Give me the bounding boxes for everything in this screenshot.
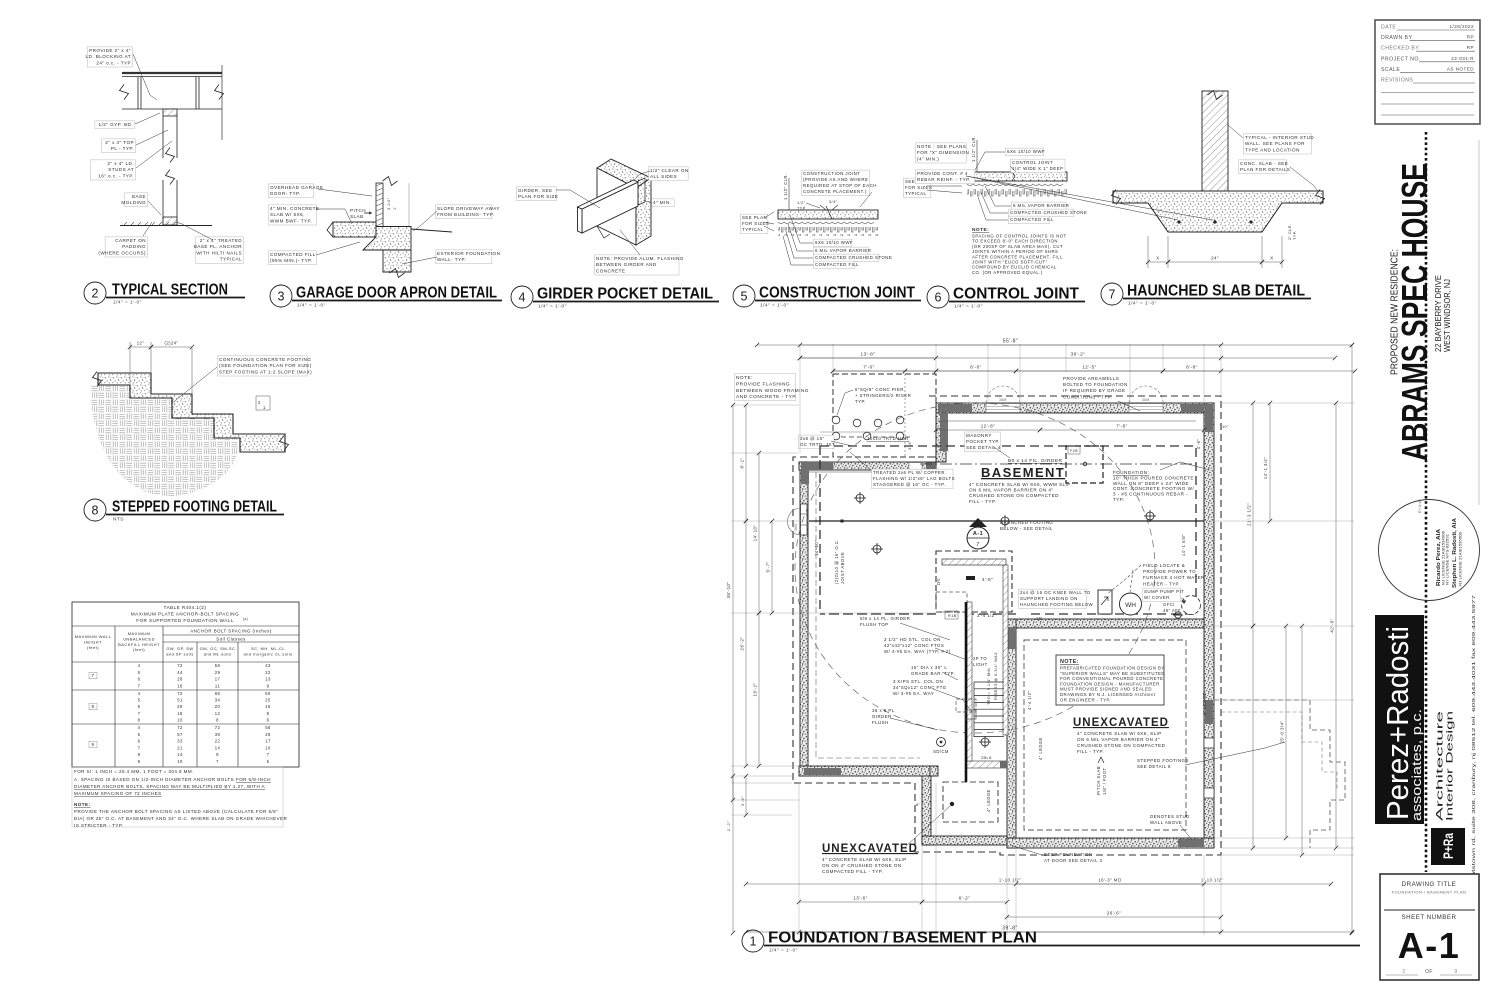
svg-text:1'-10 1/2": 1'-10 1/2": [1201, 878, 1223, 883]
svg-text:UNBALANCED: UNBALANCED: [123, 636, 155, 641]
svg-text:STAGGERED @ 16" OC - TYP.: STAGGERED @ 16" OC - TYP.: [873, 482, 946, 487]
svg-text:WWM BWF- TYP.: WWM BWF- TYP.: [270, 218, 312, 223]
svg-text:13: 13: [265, 677, 271, 682]
svg-text:(feet): (feet): [133, 647, 145, 652]
svg-text:4: 4: [138, 691, 141, 696]
svg-text:36'-2": 36'-2": [1071, 352, 1086, 358]
svg-text:Soil Classes: Soil Classes: [216, 637, 246, 642]
svg-text:BACKFILL HEIGHT: BACKFILL HEIGHT: [118, 642, 160, 647]
svg-text:CONDITIONS - TYP.: CONDITIONS - TYP.: [1063, 394, 1112, 399]
plan: knee wall label: [1019, 589, 1087, 609]
svg-text:MAXIMUM: MAXIMUM: [128, 631, 150, 636]
svg-text:10": 10": [1222, 425, 1229, 429]
svg-text:2P TO: 2P TO: [973, 656, 987, 661]
svg-text:36M: 36M: [999, 398, 1007, 402]
svg-text:6'-6": 6'-6": [970, 365, 981, 370]
svg-text:FIELD LOCATE &: FIELD LOCATE &: [1143, 563, 1185, 568]
d8 label: [218, 356, 308, 376]
svg-text:SHEET NUMBER: SHEET NUMBER: [1401, 914, 1456, 921]
plan title 1: [742, 930, 764, 952]
svg-text:1 1/2" CLR.: 1 1/2" CLR.: [783, 174, 788, 200]
svg-text:36M: 36M: [794, 523, 798, 531]
svg-text:BETWEEN WOOD FRAMING: BETWEEN WOOD FRAMING: [736, 388, 809, 394]
svg-text:7: 7: [216, 759, 219, 764]
svg-text:GIRDER: GIRDER: [872, 714, 892, 719]
svg-text:4" CONCRETE SLAB W/ 6X6, WWM S: 4" CONCRETE SLAB W/ 6X6, WWM SLIP: [969, 482, 1071, 487]
svg-text:"SUPERIOR WALLS" MAY BE SUBSTI: "SUPERIOR WALLS" MAY BE SUBSTITUTED: [1060, 671, 1165, 676]
plan: stoop walls bottom-center: [922, 776, 931, 845]
svg-text:7: 7: [138, 683, 141, 688]
svg-text:CARPET ON: CARPET ON: [115, 238, 146, 243]
svg-text:OF: OF: [1425, 969, 1433, 975]
svg-text:5: 5: [138, 670, 141, 675]
svg-text:5: 5: [138, 698, 141, 703]
plan: masonry pocket label: [965, 432, 1001, 452]
svg-text:10" THICK POURED CONCRETE: 10" THICK POURED CONCRETE: [1113, 475, 1194, 480]
svg-text:7: 7: [1109, 288, 1116, 302]
plan: stoop inner dashed rect: [943, 782, 998, 822]
plan: dark stud-wall marks: [938, 404, 972, 412]
svg-text:1/26/2022: 1/26/2022: [1450, 24, 1475, 29]
svg-text:JOIST ABOVE: JOIST ABOVE: [840, 552, 845, 584]
svg-text:GARAGE DOOR APRON DETAIL: GARAGE DOOR APRON DETAIL: [296, 285, 497, 302]
svg-text:POCKET TYP.: POCKET TYP.: [966, 439, 1000, 444]
anchor bolt table: [72, 602, 299, 767]
svg-text:1: 1: [750, 935, 757, 949]
d6 labels: [1006, 148, 1044, 156]
svg-text:HEIGHT: HEIGHT: [84, 639, 102, 644]
svg-text:72: 72: [177, 725, 183, 730]
svg-text:17: 17: [265, 739, 271, 744]
svg-text:12'-8": 12'-8": [981, 424, 995, 429]
svg-text:14'-10": 14'-10": [814, 540, 819, 556]
svg-text:1/4" = 1'-0": 1/4" = 1'-0": [538, 304, 567, 310]
svg-text:F2B: F2B: [1070, 449, 1078, 453]
svg-text:MAXIMUM PLATE ANCHOR-BOLT SPAC: MAXIMUM PLATE ANCHOR-BOLT SPACING: [131, 612, 239, 617]
svg-text:FLUSH TOP: FLUSH TOP: [860, 622, 889, 627]
plan: haunched footing bold dashed boundary: [820, 446, 1196, 614]
svg-text:14: 14: [177, 752, 183, 757]
svg-text:P+Ra: P+Ra: [1441, 833, 1456, 859]
titleblock: Perez+Radosti black box: [1375, 615, 1424, 824]
svg-text:HAUNCHED FOOTING BELOW: HAUNCHED FOOTING BELOW: [1020, 602, 1093, 607]
plan: bay window west: [788, 508, 802, 535]
svg-text:LIGHT: LIGHT: [973, 662, 988, 667]
svg-text:6: 6: [138, 677, 141, 682]
svg-text:TYP.: TYP.: [1113, 497, 1124, 502]
svg-text:14: 14: [215, 745, 221, 750]
svg-text:8: 8: [216, 717, 219, 722]
svg-text:TABLE R404.1(2): TABLE R404.1(2): [164, 605, 207, 610]
plan: east wall: [1204, 403, 1214, 848]
svg-text:FOUNDATION DESIGN - MANUFACTUR: FOUNDATION DESIGN - MANUFACTURER: [1060, 681, 1160, 686]
svg-text:NTS: NTS: [113, 517, 124, 523]
svg-text:2: 2: [1402, 969, 1405, 975]
plan: east wall window gaps: [1204, 738, 1214, 748]
svg-text:8: 8: [138, 717, 141, 722]
svg-text:WALL ABOVE: WALL ABOVE: [1150, 820, 1182, 825]
svg-text:COMPACTED CRUSHED STONE: COMPACTED CRUSHED STONE: [815, 255, 892, 260]
plan: section marker A-1: [967, 518, 989, 549]
svg-text:RP: RP: [1467, 45, 1474, 50]
svg-text:34: 34: [215, 698, 221, 703]
svg-text:W/ 4-#5 EA. WAY (TYP, # 2): W/ 4-#5 EA. WAY (TYP, # 2): [884, 649, 951, 654]
svg-text:HAUNCHED FOOTING: HAUNCHED FOOTING: [1000, 520, 1053, 525]
svg-text:29: 29: [215, 670, 221, 675]
svg-text:WALL. SEE PLANS FOR: WALL. SEE PLANS FOR: [1245, 141, 1305, 146]
svg-text:1 1/2" CLR.: 1 1/2" CLR.: [971, 136, 976, 162]
svg-text:PITCH SLAB: PITCH SLAB: [1096, 766, 1101, 795]
svg-text:PROVIDE THE ANCHOR BOLT SPACIN: PROVIDE THE ANCHOR BOLT SPACING AS LISTE…: [74, 809, 278, 814]
svg-text:3 1/2" HD STL. COL ON: 3 1/2" HD STL. COL ON: [884, 637, 941, 642]
svg-text:16" o.c. - TYP.: 16" o.c. - TYP.: [98, 173, 134, 178]
svg-text:PL - TYP.: PL - TYP.: [111, 146, 134, 151]
svg-text:2: 2: [92, 287, 99, 301]
svg-text:PROVIDE FLASHING: PROVIDE FLASHING: [736, 381, 790, 387]
svg-text:STEPPED FOOTINGS: STEPPED FOOTINGS: [1137, 758, 1189, 763]
svg-text:3: 3: [278, 290, 285, 304]
detail 7: haunched slab drawing: [1202, 91, 1228, 191]
svg-text:24" o.c. - TYP: 24" o.c. - TYP: [96, 60, 131, 65]
svg-text:STEPPED FOOTING DETAIL: STEPPED FOOTING DETAIL: [112, 499, 277, 516]
svg-text:CONTROL JOINT: CONTROL JOINT: [953, 286, 1080, 303]
svg-text:BETWEEN GIRDER AND: BETWEEN GIRDER AND: [596, 262, 657, 267]
svg-text:FOR SI: 1 INCH = 25.4 MM, 1 FO: FOR SI: 1 INCH = 25.4 MM, 1 FOOT = 304.8…: [74, 769, 194, 774]
plan: SE room bottom wall: [1007, 838, 1214, 848]
svg-text:72: 72: [177, 691, 183, 696]
svg-text:7: 7: [138, 711, 141, 716]
svg-text:21'-3 1/2": 21'-3 1/2": [1247, 503, 1252, 526]
svg-text:DN: DN: [936, 578, 941, 585]
svg-text:X: X: [1270, 256, 1273, 261]
svg-text:6'-8": 6'-8": [1186, 365, 1197, 370]
svg-text:5: 5: [267, 759, 270, 764]
plan dims: right extension lines: [1221, 402, 1354, 404]
detail 4: girder pocket isometric: [597, 159, 651, 188]
detail 5 title: [733, 285, 755, 307]
svg-text:+ STRINGERS/2 RISER: + STRINGERS/2 RISER: [855, 393, 911, 398]
svg-text:13'-6": 13'-6": [853, 896, 867, 901]
detail 8 title: [84, 499, 106, 521]
svg-text:6"SQ/8" CONC PIER: 6"SQ/8" CONC PIER: [855, 387, 904, 392]
svg-text:CONC. SLAB - SEE: CONC. SLAB - SEE: [1240, 161, 1288, 166]
plan: inner footing lines: [936, 420, 1196, 422]
svg-text:SEE DETAIL 4: SEE DETAIL 4: [966, 445, 1001, 450]
plan: note box top-left: [735, 374, 796, 401]
svg-text:1/4" = 1'-0": 1/4" = 1'-0": [954, 304, 983, 310]
svg-text:57: 57: [177, 732, 183, 737]
svg-text:(2)24": (2)24": [165, 341, 179, 346]
svg-text:24": 24": [1211, 256, 1219, 261]
plan: garage front wall top-left: [799, 462, 936, 470]
svg-text:UNEXCAVATED: UNEXCAVATED: [1073, 717, 1169, 729]
svg-text:(PROVIDE AS AND WHERE: (PROVIDE AS AND WHERE: [803, 177, 868, 182]
svg-text:NOTE:: NOTE:: [1060, 659, 1079, 665]
svg-text:36'-10": 36'-10": [726, 582, 731, 599]
detail 6 title: [927, 286, 949, 308]
svg-text:CONTROL JOINT: CONTROL JOINT: [1012, 160, 1053, 165]
svg-text:CHECKED BY: CHECKED BY: [1381, 46, 1419, 52]
svg-text:MUST PROVIDE SIGNED AND SEALED: MUST PROVIDE SIGNED AND SEALED: [1060, 687, 1152, 692]
svg-text:6 MIL VAPOR BARRIER: 6 MIL VAPOR BARRIER: [1013, 203, 1069, 208]
svg-text:NOTE:: NOTE:: [972, 227, 989, 233]
svg-text:PROVIDE CONT. # 4: PROVIDE CONT. # 4: [917, 171, 968, 176]
svg-text:1/2" CLEAR ON: 1/2" CLEAR ON: [650, 168, 689, 173]
svg-text:16'-3" MO: 16'-3" MO: [1098, 878, 1122, 883]
plan: lally column symbols: [871, 543, 883, 555]
svg-text:3'-6": 3'-6": [740, 796, 745, 806]
svg-text:MAXIMUM WALL: MAXIMUM WALL: [75, 634, 112, 639]
svg-text:PROVIDE 2" x 4": PROVIDE 2" x 4": [89, 48, 131, 53]
svg-text:MAXIMUM SPACING OF 72 INCHES: MAXIMUM SPACING OF 72 INCHES: [74, 791, 162, 796]
svg-text:NOTE: PROVIDE ALUM. FLASHING: NOTE: PROVIDE ALUM. FLASHING: [596, 256, 684, 261]
svg-text:PLAN FOR SIZE: PLAN FOR SIZE: [518, 194, 558, 199]
svg-text:CONT. CONCRETE FOOTING W/: CONT. CONCRETE FOOTING W/: [1113, 486, 1194, 491]
svg-text:R+AIA: R+AIA: [1418, 500, 1422, 513]
svg-text:SUPPORT LANDING ON: SUPPORT LANDING ON: [1020, 596, 1078, 601]
svg-text:W/ 3-#5 EA. WAY: W/ 3-#5 EA. WAY: [893, 691, 934, 696]
svg-text:1'-10 1/2": 1'-10 1/2": [999, 878, 1021, 883]
svg-text:DENOTES STUD: DENOTES STUD: [1150, 814, 1190, 819]
plan: outer footing dashed lines: [793, 396, 1221, 855]
svg-text:SC, MH, ML-CL: SC, MH, ML-CL: [251, 646, 285, 651]
svg-text:6: 6: [138, 704, 141, 709]
svg-text:BELOW - SEE DETAIL: BELOW - SEE DETAIL: [1000, 526, 1053, 531]
svg-text:13'-8": 13'-8": [861, 352, 876, 358]
svg-text:AT DOOR SEE DETAIL 3: AT DOOR SEE DETAIL 3: [1044, 858, 1102, 863]
svg-text:22: 22: [215, 739, 221, 744]
svg-text:OVERHEAD GARAGE: OVERHEAD GARAGE: [270, 185, 323, 190]
svg-text:PREFABRICATED FOUNDATION DESIG: PREFABRICATED FOUNDATION DESIGN BY: [1060, 666, 1165, 671]
svg-text:34"SQx12" CONC FTG: 34"SQx12" CONC FTG: [893, 685, 947, 690]
plan: water heater circle: [1120, 593, 1142, 615]
svg-text:TYPICAL: TYPICAL: [220, 257, 242, 262]
svg-text:2" x 4" TOP: 2" x 4" TOP: [105, 140, 134, 145]
svg-text:6X6 10/10 WWF: 6X6 10/10 WWF: [815, 240, 853, 245]
svg-text:8: 8: [92, 704, 95, 709]
detail 4 title: [511, 286, 533, 308]
svg-text:NJ LICENSE 21AI01535500: NJ LICENSE 21AI01535500: [1459, 532, 1463, 586]
svg-text:72: 72: [215, 725, 221, 730]
svg-text:2" x 4" LD.: 2" x 4" LD.: [107, 161, 134, 166]
svg-text:56: 56: [265, 725, 271, 730]
svg-text:SLAB: SLAB: [350, 214, 364, 219]
svg-text:WALL- TYP.: WALL- TYP.: [437, 257, 466, 262]
svg-text:CONCRETE: CONCRETE: [596, 268, 625, 273]
plan: stepped footing dashes east: [1214, 700, 1345, 848]
svg-text:4" CONCRETE SLAB W/ 6X6, SLI: 4" CONCRETE SLAB W/ 6X6, SLIP: [822, 857, 907, 862]
plan: west jog wall at x936: [936, 413, 946, 462]
svg-text:WH: WH: [1125, 602, 1136, 609]
svg-text:3'-6": 3'-6": [908, 440, 912, 450]
svg-text:GIRDER POCKET DETAIL: GIRDER POCKET DETAIL: [537, 286, 713, 303]
svg-text:9: 9: [216, 752, 219, 757]
svg-text:55'-8": 55'-8": [1003, 339, 1018, 345]
svg-text:CRUSHED STONE ON COMPACTED: CRUSHED STONE ON COMPACTED: [969, 493, 1059, 498]
svg-text:4" LEDGE: 4" LEDGE: [1202, 692, 1207, 715]
svg-text:FOUNDATION:: FOUNDATION:: [1113, 470, 1149, 475]
plan: mid horizontal beam line: [809, 520, 1204, 522]
svg-text:RISERS @ 6-3/4" MAX: RISERS @ 6-3/4" MAX: [994, 652, 998, 700]
svg-text:1/8" / FOOT: 1/8" / FOOT: [1102, 768, 1107, 795]
svg-text:5/8 x 14 PL. GIRDER: 5/8 x 14 PL. GIRDER: [860, 616, 910, 621]
svg-text:10: 10: [177, 759, 183, 764]
svg-text:5: 5: [138, 732, 141, 737]
svg-text:(2)2x10 @ 16" O.C.: (2)2x10 @ 16" O.C.: [834, 539, 839, 584]
titleblock: info box top right: [1375, 20, 1480, 124]
svg-text:4'-4 1/2": 4'-4 1/2": [1027, 691, 1032, 710]
svg-text:12'-5": 12'-5": [1082, 365, 1096, 370]
svg-text:CONSTRUCTION JOINT: CONSTRUCTION JOINT: [759, 285, 915, 302]
svg-text:(SEE FOUNDATION PLAN FOR SIZE): (SEE FOUNDATION PLAN FOR SIZE): [219, 363, 312, 368]
svg-text:(95% MIN.)- TYP.: (95% MIN.)- TYP.: [270, 258, 313, 263]
svg-text:16'-2": 16'-2": [753, 683, 758, 697]
svg-text:PITCH: PITCH: [350, 208, 366, 213]
svg-text:22: 22: [265, 670, 271, 675]
svg-text:9: 9: [92, 742, 95, 747]
plan dims: inner top right: [936, 429, 1040, 431]
svg-text:7'-0": 7'-0": [863, 365, 874, 370]
titleblock: vertical dotted separator: [1425, 132, 1428, 872]
svg-text:2x4 @ 16 OC KNEE WALL TO: 2x4 @ 16 OC KNEE WALL TO: [1020, 590, 1091, 595]
detail 7 title: [1101, 283, 1123, 305]
svg-text:11: 11: [215, 683, 220, 688]
svg-text:FILL - TYP.: FILL - TYP.: [1077, 749, 1104, 754]
svg-text:TYPICAL: TYPICAL: [905, 191, 927, 196]
svg-text:BASE: BASE: [132, 194, 146, 199]
svg-text:51: 51: [177, 698, 183, 703]
titleblock: drawing title box: [1380, 874, 1479, 980]
detail 2 title: [84, 282, 106, 304]
svg-text:(WHERE OCCURS): (WHERE OCCURS): [98, 250, 146, 255]
svg-text:A-1: A-1: [1398, 925, 1461, 966]
svg-text:FOR CONVENTIONAL POURED CONCRE: FOR CONVENTIONAL POURED CONCRETE: [1060, 676, 1163, 681]
svg-text:TYP: TYP: [797, 206, 806, 210]
svg-text:1'-2": 1'-2": [726, 821, 731, 831]
svg-text:18: 18: [177, 711, 183, 716]
plan dims: right vertical lines: [1252, 403, 1254, 626]
svg-text:DIAMETER ANCHOR BOLTS, SPACING: DIAMETER ANCHOR BOLTS, SPACING MAY BE MU…: [74, 784, 265, 789]
detail 3 title: [270, 285, 292, 307]
svg-text:2BL8: 2BL8: [981, 756, 992, 760]
svg-text:NOTE:: NOTE:: [74, 802, 91, 807]
svg-text:TYP.: TYP.: [1293, 230, 1297, 240]
svg-text:DIA) OR 25" O.C. AT BASEMENT A: DIA) OR 25" O.C. AT BASEMENT AND 34" O.C…: [74, 816, 287, 821]
svg-text:AS NOTED: AS NOTED: [1447, 66, 1474, 71]
svg-text:50: 50: [265, 691, 271, 696]
svg-text:4'-6": 4'-6": [1196, 439, 1201, 450]
d4 labels: [517, 187, 557, 201]
svg-text:FROM BUILDING- TYP.: FROM BUILDING- TYP.: [437, 212, 494, 217]
d5 under-slab leaders: [814, 239, 852, 247]
svg-text:42"x42"x12" CONC FTGS: 42"x42"x12" CONC FTGS: [884, 643, 944, 648]
svg-text:7: 7: [138, 745, 141, 750]
svg-text:12": 12": [137, 341, 145, 346]
svg-text:4: 4: [138, 725, 141, 730]
svg-text:W/ COVER: W/ COVER: [1144, 595, 1170, 600]
plan: girder dash-dot line: [920, 463, 1196, 465]
svg-text:8": 8": [916, 802, 921, 807]
svg-text:(4" MIN.): (4" MIN.): [917, 156, 939, 161]
svg-text:FOR 5/8-INCH: FOR 5/8-INCH: [236, 777, 271, 782]
svg-text:10x10 TRTD HDR: 10x10 TRTD HDR: [867, 436, 909, 441]
svg-text:MASONRY: MASONRY: [966, 433, 992, 438]
svg-text:7: 7: [267, 752, 270, 757]
svg-text:8'-1": 8'-1": [740, 458, 745, 469]
svg-text:3 - #5 CONTINUOUS REBAR -: 3 - #5 CONTINUOUS REBAR -: [1113, 492, 1188, 497]
svg-text:9: 9: [1454, 969, 1457, 975]
plan dims: top row 3: [833, 370, 1355, 372]
svg-text:(a): (a): [243, 617, 248, 621]
titleblock: P+Ra small box: [1431, 828, 1465, 865]
svg-text:associates, p.c.: associates, p.c.: [1409, 709, 1424, 821]
plan: sump pit dashed circle: [1182, 596, 1201, 615]
svg-text:72: 72: [177, 663, 183, 668]
plan: SE room west wall: [1007, 619, 1016, 848]
svg-text:GFCI: GFCI: [1163, 602, 1175, 607]
svg-text:FLASHING W/ 1/2"x6" LAG BOLTS: FLASHING W/ 1/2"x6" LAG BOLTS: [873, 476, 955, 481]
svg-text:16': 16': [1036, 616, 1043, 621]
svg-text:14'-1 3/4": 14'-1 3/4": [1263, 457, 1268, 479]
svg-text:1/4" = 1'-0": 1/4" = 1'-0": [769, 948, 798, 954]
svg-text:1': 1': [393, 206, 397, 210]
svg-text:4" CONCRETE SLAB W/ 6X6, SLI: 4" CONCRETE SLAB W/ 6X6, SLIP: [1077, 731, 1162, 736]
plan: stair treads: [974, 682, 1004, 737]
plan: sump pump label: [1143, 588, 1181, 602]
svg-text:NOTE:: NOTE:: [736, 375, 753, 381]
svg-text:25'-0 3/4": 25'-0 3/4": [1280, 720, 1285, 743]
svg-text:38: 38: [215, 732, 221, 737]
svg-text:TRD = 9 1/4" MIN: TRD = 9 1/4" MIN: [987, 668, 991, 705]
svg-text:GIRDER. SEE: GIRDER. SEE: [518, 188, 553, 193]
svg-text:2" CLR.: 2" CLR.: [1288, 224, 1292, 240]
svg-text:1/4" = 1'-0": 1/4" = 1'-0": [1128, 301, 1157, 307]
svg-text:9: 9: [138, 759, 141, 764]
svg-text:15" DIA x 30" L: 15" DIA x 30" L: [911, 665, 947, 670]
d3 labels: [269, 184, 314, 198]
plan: furnace rect: [1098, 590, 1112, 614]
svg-text:14'-1 5/8": 14'-1 5/8": [1181, 534, 1186, 556]
svg-text:WALL ON 8" DEEP x 24" WIDE: WALL ON 8" DEEP x 24" WIDE: [1113, 481, 1189, 486]
svg-text:REBAR REINF. - TYP.: REBAR REINF. - TYP.: [917, 177, 971, 182]
svg-text:7'-8": 7'-8": [1116, 424, 1127, 429]
plan: SE room top wall: [1016, 619, 1204, 628]
svg-text:Interior Design: Interior Design: [1445, 711, 1456, 821]
svg-text:and inorganic CL soils: and inorganic CL soils: [243, 651, 292, 656]
svg-text:3'-4 1/2": 3'-4 1/2": [977, 613, 996, 618]
svg-text:SLOPE DRIVEWAY AWAY: SLOPE DRIVEWAY AWAY: [437, 206, 500, 211]
svg-text:FURNACE 4 HOT WATER: FURNACE 4 HOT WATER: [1143, 575, 1205, 580]
svg-text:4" MIN.: 4" MIN.: [653, 200, 671, 205]
svg-text:3/4": 3/4": [829, 200, 838, 204]
svg-text:36M: 36M: [1142, 398, 1150, 402]
svg-text:4" LEDGE: 4" LEDGE: [1038, 737, 1043, 760]
plan: deck dashed area top-left: [833, 374, 936, 457]
detail 2: typical section drawing: [122, 73, 222, 109]
svg-text:SD/CM: SD/CM: [933, 749, 949, 754]
svg-text:6: 6: [935, 291, 942, 305]
svg-text:10: 10: [265, 745, 271, 750]
svg-text:REVISIONS: REVISIONS: [1381, 78, 1413, 84]
svg-text:SEE PLAN: SEE PLAN: [742, 215, 767, 220]
svg-text:Stephen L. Radosti, AIA: Stephen L. Radosti, AIA: [1452, 518, 1458, 588]
svg-text:CONCRETE PLACEMENT.): CONCRETE PLACEMENT.): [803, 189, 867, 194]
svg-text:TYPE AND LOCATION: TYPE AND LOCATION: [1245, 147, 1300, 152]
svg-text:R1B: R1B: [948, 614, 957, 618]
svg-text:ANCHOR BOLT SPACING (inches): ANCHOR BOLT SPACING (inches): [190, 629, 271, 634]
plan: stair side walls: [967, 602, 972, 761]
svg-text:TYPICAL SECTION: TYPICAL SECTION: [112, 282, 228, 299]
